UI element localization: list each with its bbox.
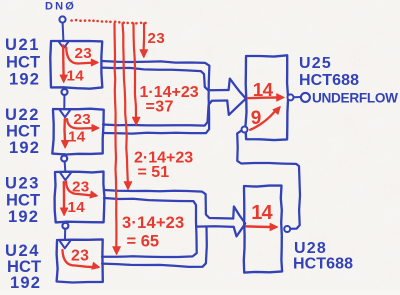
wire DN0 to U21 pin DOWN [62,23,65,41]
red drop line to U22 (1*14+23) [134,24,137,118]
red drop line to U24 (3*14+23) [115,24,117,248]
svg-text:23: 23 [74,111,92,128]
wire U22 to U23 [64,154,65,172]
junction between U21 and U22 [63,88,65,108]
bus wire U23 lower down to U24 upper (outer loop) [102,198,197,257]
svg-text:= 65: = 65 [127,232,160,250]
U25 P=Q input pin bubble [242,127,248,133]
svg-text:HCT688: HCT688 [293,256,353,273]
svg-text:3·14+23: 3·14+23 [122,214,184,232]
U25 red arrow P side [248,96,278,99]
counter U21 box [50,41,102,89]
svg-text:192: 192 [10,274,41,290]
carry node ring U21-U22 [62,89,68,95]
svg-text:UNDERFLOW: UNDERFLOW [312,91,398,106]
svg-text:14: 14 [251,202,273,224]
U23 red curved arrow load 23 [66,182,78,195]
U24 red curved arrow load 23 [63,250,76,266]
pin arrow into U24 [60,241,70,248]
UNDERFLOW terminal ring [301,93,310,102]
U28 output pin bubble [284,226,290,232]
U25 red curved arrow Q side [250,112,274,130]
svg-text:14: 14 [67,68,85,85]
carry node ring U22-U23 [61,156,67,162]
svg-text:23: 23 [148,30,166,47]
U25 output pin bubble [288,94,294,100]
svg-text:HCT: HCT [6,192,40,210]
feedback wire U28 to U25 [237,131,300,229]
svg-text:= 51: = 51 [138,164,170,181]
U23 red arrow count-down 14 [63,182,66,209]
svg-text:14: 14 [68,128,86,145]
svg-text:DNØ: DNØ [45,1,76,13]
bus wire U21 lower to arrow shaft top [102,68,229,91]
svg-text:HCT: HCT [6,123,40,141]
pin arrow into U22 [60,110,70,117]
U28 red arrow [247,225,271,228]
svg-text:HCT688: HCT688 [299,72,359,89]
node DN0 terminal [59,16,65,22]
bus wire U22 upper to arrow shaft bottom [103,101,227,126]
svg-text:14: 14 [68,199,86,216]
wire U25 output to terminal [294,96,301,98]
red dotted borrow line from DN0 [70,19,73,22]
pin arrow into U21 [58,41,68,48]
svg-text:192: 192 [9,139,40,157]
U22 red curved arrow load 23 [67,119,79,129]
counter U22 box [52,109,103,155]
wire U23 to U24 [64,222,66,240]
svg-text:HCT: HCT [6,54,40,72]
red drop line to U23 (2*14+23) [123,24,128,182]
comparator U28 box [244,186,282,273]
svg-text:192: 192 [8,208,39,226]
pin arrow into U23 [60,173,70,180]
U22 red arrow count-down 14 [63,119,66,141]
svg-text:U25: U25 [299,55,332,72]
counter U23 box [55,172,105,223]
comparator U25 box [246,55,289,140]
red drop line 23 (borrow tap 1) [143,24,146,51]
U21 red curved arrow load 23 [66,48,78,64]
bus arrowhead into U25 [229,79,246,99]
bus wire U21 Q outputs to U25 (outer) [102,61,209,134]
bus wire U23 upper to arrow shaft top [104,190,233,219]
svg-text:192: 192 [9,71,40,89]
svg-text:23: 23 [75,45,93,62]
U21 red arrow count-down 14 [62,46,65,76]
svg-text:=37: =37 [146,99,174,116]
svg-text:23: 23 [71,247,89,264]
svg-text:U21: U21 [5,36,40,54]
svg-text:U23: U23 [5,175,40,193]
bus wire U24 lower up to arrow shaft [102,227,207,267]
counter U24 box [57,239,103,282]
svg-text:U28: U28 [294,240,327,257]
svg-text:U22: U22 [5,106,40,124]
bus arrow shaft bottom from junction [196,225,233,228]
bus arrowhead into U28 [233,207,245,224]
svg-text:23: 23 [72,178,90,195]
carry node ring U23-U24 [62,223,68,229]
